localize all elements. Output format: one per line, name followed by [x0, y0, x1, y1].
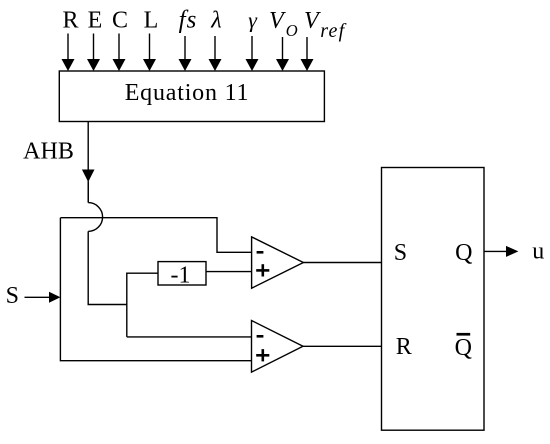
- arrowhead S input: [49, 292, 60, 303]
- svg-text:L: L: [144, 8, 159, 34]
- arrowhead R: [62, 59, 75, 71]
- arrowhead u output: [506, 246, 518, 257]
- block SR latch: [382, 168, 485, 431]
- svg-text:V: V: [304, 8, 321, 34]
- wire S left vertical to bottom comparator plus: [60, 218, 251, 361]
- svg-text:ref: ref: [320, 20, 346, 42]
- comparator U1 top: [252, 237, 304, 288]
- wire S input: [25, 296, 50, 298]
- svg-text:λ: λ: [210, 8, 221, 34]
- arrowhead lambda: [209, 59, 222, 71]
- arrowhead AHB: [82, 170, 95, 183]
- svg-text:γ: γ: [248, 8, 258, 33]
- plus sign U2: [256, 354, 269, 357]
- arrowhead C: [113, 59, 126, 71]
- svg-text:E: E: [88, 8, 103, 34]
- svg-text:R: R: [62, 8, 78, 34]
- wire mid to bottom comparator minus: [127, 336, 252, 338]
- wire mid vertical branch: [127, 273, 158, 337]
- wire u output: [484, 250, 507, 252]
- arrowhead Vref: [301, 59, 314, 71]
- minus sign U2: [257, 335, 264, 338]
- svg-text:S: S: [6, 283, 19, 309]
- arrowhead gamma: [246, 59, 259, 71]
- wire input C arrow: [118, 34, 120, 61]
- wire input gamma arrow: [251, 36, 253, 60]
- wire -1 output to top comparator plus: [206, 271, 252, 273]
- svg-text:AHB: AHB: [23, 138, 74, 164]
- wire input fs arrow: [184, 36, 186, 60]
- arrowhead fs: [179, 59, 192, 71]
- svg-text:-1: -1: [171, 263, 191, 289]
- svg-text:fs: fs: [179, 7, 198, 34]
- wire S horizontal to top comparator minus: [60, 218, 251, 253]
- svg-text:Q: Q: [455, 240, 472, 266]
- block Equation 11: [59, 71, 324, 122]
- svg-text:S: S: [394, 240, 407, 266]
- wire U1 output to latch S: [303, 262, 381, 264]
- svg-text:R: R: [396, 334, 412, 360]
- svg-text:V: V: [269, 8, 286, 34]
- arrowhead L: [143, 59, 156, 71]
- svg-text:u: u: [532, 239, 544, 265]
- wire crossover hop: [88, 203, 102, 232]
- overbar of Qbar: [457, 333, 471, 336]
- block gain -1: [158, 262, 206, 285]
- wire input Vref arrow: [306, 37, 308, 60]
- wire AHB vertical: [87, 122, 89, 203]
- wire input lambda arrow: [214, 36, 216, 60]
- wire AHB lower vertical to junction: [88, 231, 127, 304]
- wire input R arrow: [67, 34, 69, 61]
- wire input L arrow: [149, 34, 151, 61]
- svg-text:C: C: [112, 8, 128, 34]
- arrowhead Vo: [276, 59, 289, 71]
- wire input Vo arrow: [282, 37, 284, 60]
- minus sign U1: [257, 251, 264, 254]
- arrowhead E: [87, 59, 100, 71]
- svg-text:Q: Q: [455, 335, 472, 361]
- svg-text:O: O: [286, 21, 298, 40]
- svg-text:Equation 11: Equation 11: [125, 80, 250, 106]
- plus sign U1: [256, 269, 269, 272]
- wire U2 output to latch R: [303, 345, 382, 347]
- comparator U2 bottom: [252, 321, 304, 373]
- wire input E arrow: [93, 34, 95, 61]
